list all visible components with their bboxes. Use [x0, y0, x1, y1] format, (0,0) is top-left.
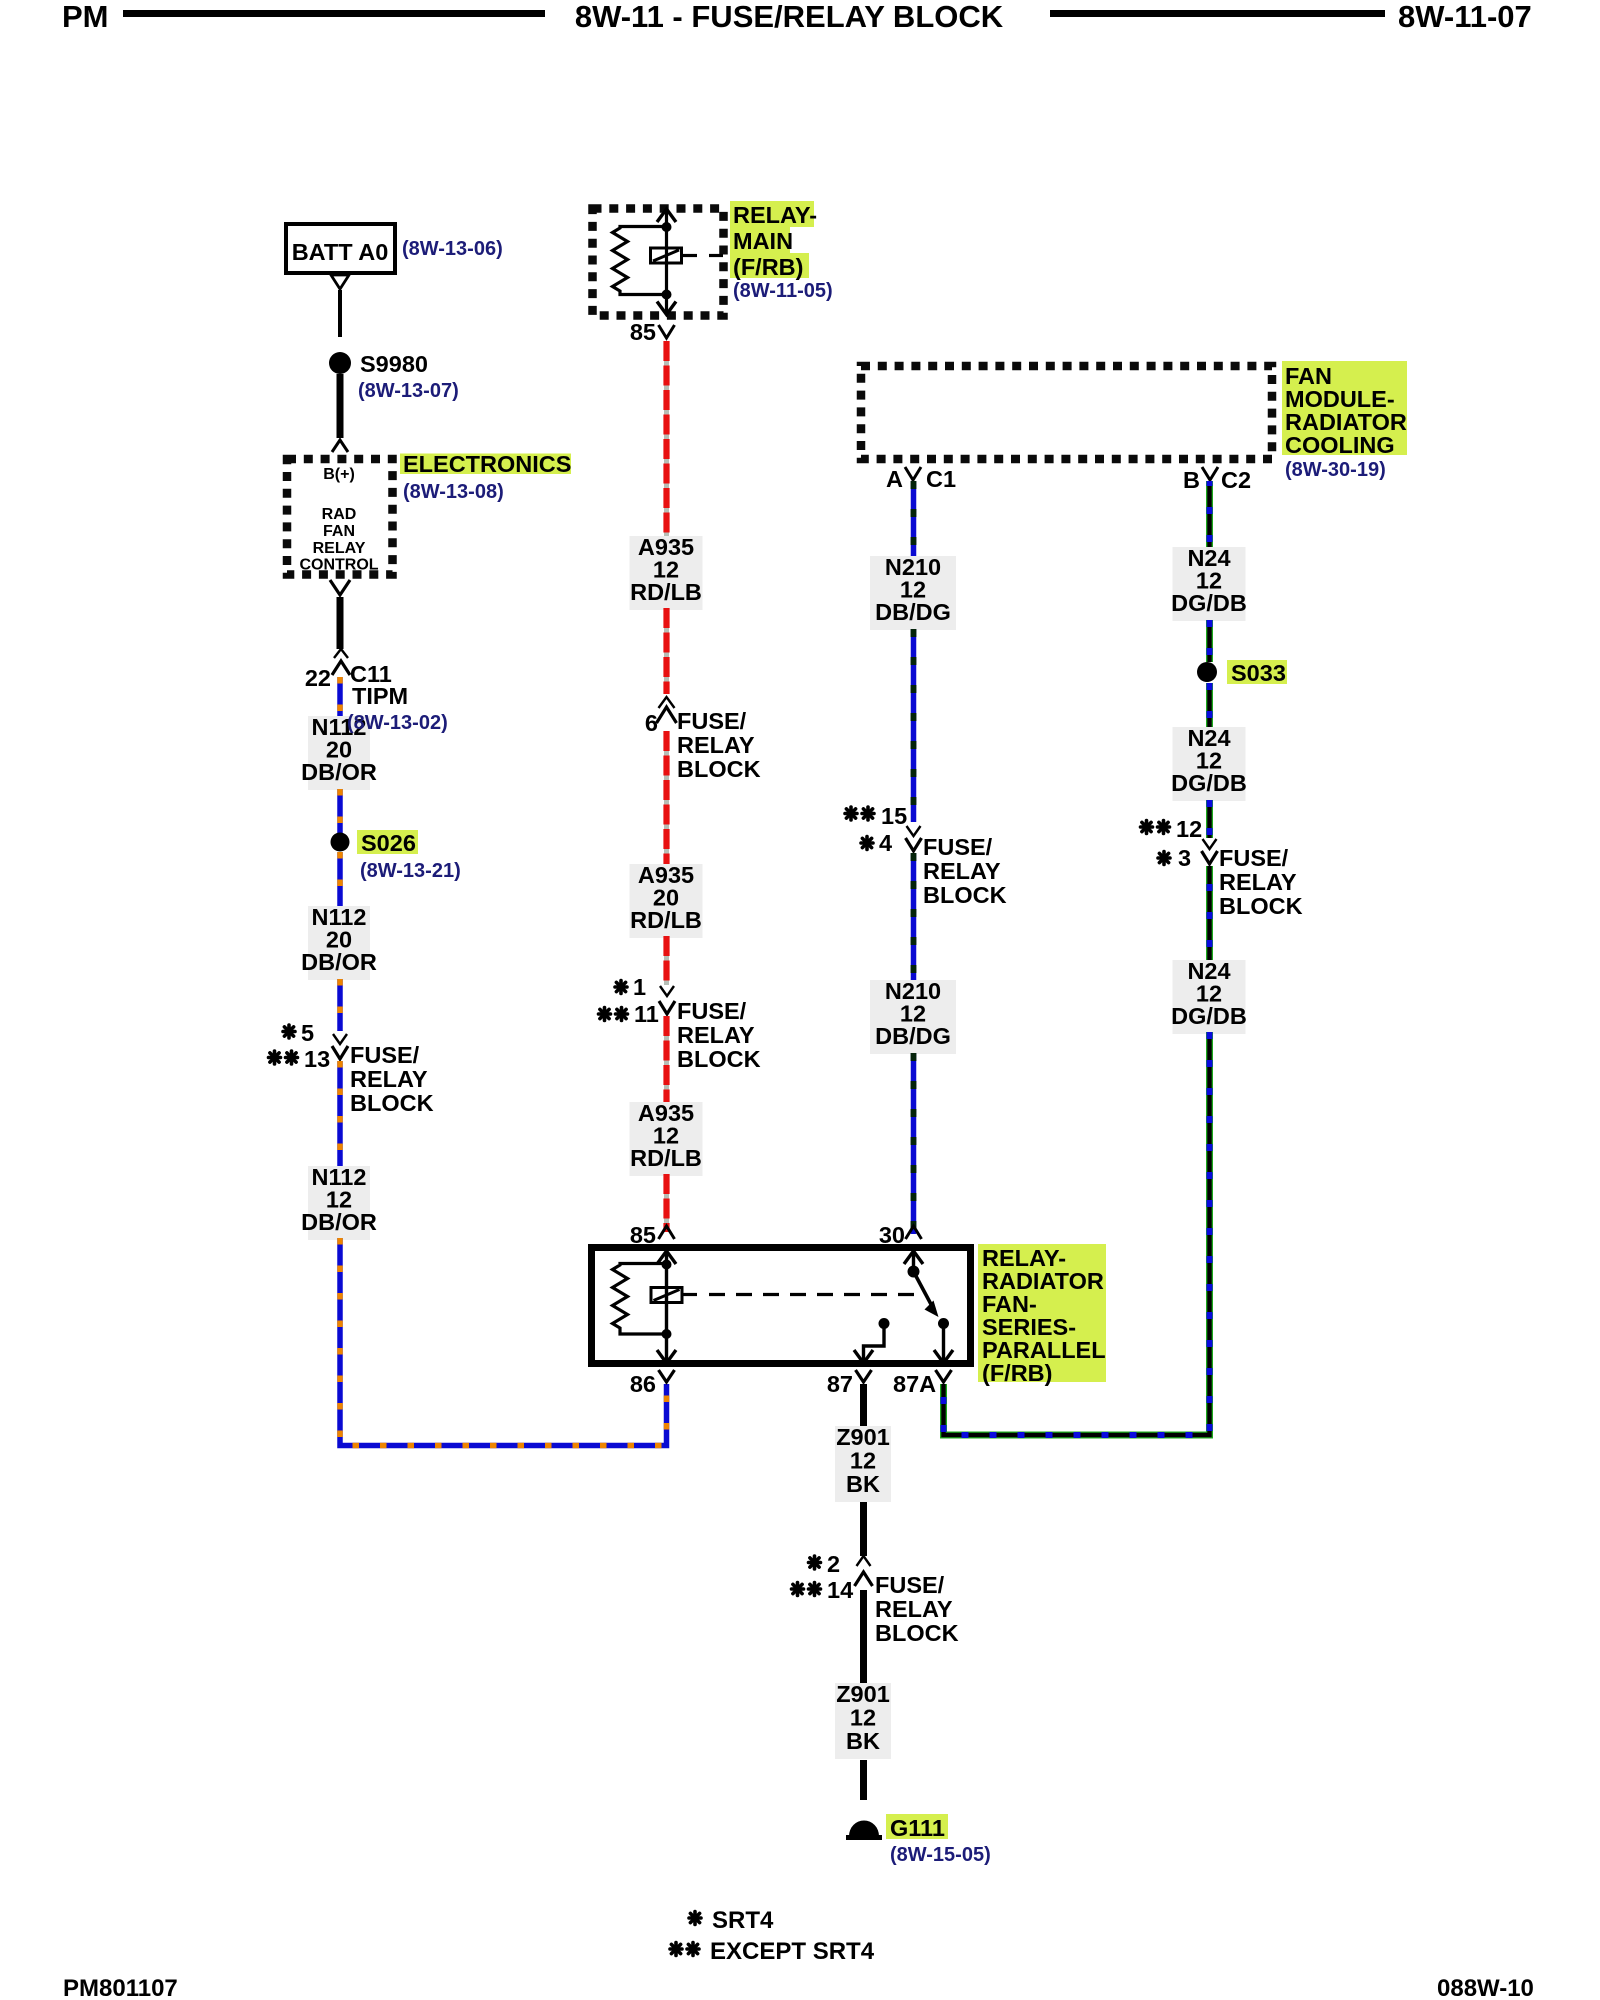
wire label Z901 12 BK — [835, 1426, 891, 1502]
note star star 15 — [845, 807, 857, 820]
connector triangle below BATT A0 — [331, 275, 349, 289]
svg-text:(8W-13-06): (8W-13-06) — [402, 238, 503, 260]
wire N112 12 DB/OR segment 5 — [337, 1061, 343, 1166]
svg-text:(8W-11-05): (8W-11-05) — [733, 280, 833, 302]
svg-text:BK: BK — [846, 1728, 880, 1754]
footnote star star EXCEPT SRT4 — [670, 1943, 682, 1956]
svg-text:BLOCK: BLOCK — [875, 1620, 959, 1646]
wire A935 segment 4 — [664, 936, 669, 985]
svg-text:RELAY: RELAY — [875, 1596, 953, 1622]
svg-text:14: 14 — [827, 1577, 853, 1603]
svg-text:15: 15 — [881, 803, 907, 829]
connector FUSE/RELAY BLOCK double chevron down — [1203, 839, 1217, 849]
relay-main junction dot top — [662, 222, 672, 232]
svg-text:SRT4: SRT4 — [712, 1907, 774, 1934]
relay arrow up pin 30 — [904, 1251, 923, 1264]
svg-text:RELAY: RELAY — [677, 1022, 755, 1048]
svg-text:DB/DG: DB/DG — [875, 599, 951, 625]
wire A935 20 RD/LB segment 3 — [664, 731, 669, 864]
wire Z901 segment 2 — [860, 1502, 867, 1556]
svg-text:Z901: Z901 — [836, 1424, 890, 1450]
note star star 14 — [792, 1583, 804, 1596]
connector FUSE/RELAY BLOCK double chevron up — [857, 1556, 871, 1566]
footnote star SRT4 — [689, 1912, 701, 1925]
svg-text:12: 12 — [850, 1448, 876, 1474]
svg-text:FAN: FAN — [323, 523, 355, 540]
svg-text:RD/LB: RD/LB — [630, 579, 702, 605]
wire label A935 20 RD/LB — [630, 864, 703, 938]
relay contact dot 87 — [879, 1318, 890, 1329]
wire label N24 12 DG/DB — [1173, 547, 1246, 621]
svg-text:4: 4 — [879, 830, 892, 856]
header rule left — [123, 10, 545, 17]
svg-text:CONTROL: CONTROL — [299, 557, 378, 574]
wire N112 20 DB/OR segment 2 — [337, 789, 343, 833]
note star 3 — [1158, 852, 1170, 865]
wire label N112 20 DB/OR — [308, 716, 370, 790]
svg-text:BLOCK: BLOCK — [923, 882, 1007, 908]
wire N112 20 DB/OR segment 1 — [337, 677, 343, 718]
svg-text:PM: PM — [62, 0, 109, 34]
svg-text:(8W-13-08): (8W-13-08) — [403, 481, 504, 503]
svg-text:FUSE/: FUSE/ — [1219, 845, 1289, 871]
svg-text:RELAY: RELAY — [313, 540, 366, 557]
wire label N112 12 DB/OR — [308, 1166, 370, 1240]
wire Z901 12 BK segment 3 — [860, 1590, 867, 1683]
wire label N112 20 DB/OR — [308, 906, 370, 980]
wire label N210 12 DB/DG — [870, 980, 956, 1054]
svg-text:ELECTRONICS: ELECTRONICS — [403, 451, 571, 477]
svg-text:DB/OR: DB/OR — [301, 1209, 377, 1235]
svg-text:(8W-13-02): (8W-13-02) — [347, 712, 448, 734]
svg-text:TIPM: TIPM — [352, 683, 408, 709]
svg-text:DG/DB: DG/DB — [1171, 1003, 1247, 1029]
svg-text:87A: 87A — [893, 1371, 936, 1397]
label RELAY-MAIN (F/RB) highlighted — [730, 201, 814, 227]
label S033 highlighted — [1227, 660, 1287, 684]
svg-text:B: B — [1183, 467, 1200, 493]
wire label N210 12 DB/DG — [870, 556, 956, 630]
wire N24 segment 4 — [1206, 800, 1213, 838]
relay box RELAY-MAIN dashed — [593, 209, 724, 316]
relay switch common dot — [908, 1266, 920, 1278]
svg-text:DB/DG: DB/DG — [875, 1023, 951, 1049]
svg-text:1: 1 — [633, 974, 646, 1000]
relay switch contact dot 87A — [938, 1318, 949, 1329]
svg-text:BLOCK: BLOCK — [350, 1090, 434, 1116]
splice S033 — [1197, 662, 1217, 682]
battery feed box BATT A0 — [286, 224, 395, 273]
relay pin 87A line — [942, 1324, 945, 1361]
svg-text:FUSE/: FUSE/ — [875, 1572, 945, 1598]
wire N210 segment 4 to relay pin 30 — [911, 1053, 917, 1234]
relay-main coil symbol — [651, 248, 682, 263]
svg-text:RD/LB: RD/LB — [630, 1145, 702, 1171]
ground G111 — [849, 1820, 879, 1836]
label ELECTRONICS highlighted — [400, 454, 571, 475]
connector FUSE/RELAY BLOCK double chevron down — [660, 986, 674, 996]
svg-text:2: 2 — [827, 1551, 840, 1577]
svg-text:EXCEPT SRT4: EXCEPT SRT4 — [710, 1938, 875, 1965]
svg-text:S9980: S9980 — [360, 351, 428, 377]
connector chevron pin 87A — [936, 1370, 952, 1382]
svg-text:86: 86 — [630, 1371, 656, 1397]
relay arrow down pin 87 — [854, 1350, 873, 1363]
header rule right — [1050, 10, 1385, 17]
svg-text:(8W-30-19): (8W-30-19) — [1285, 459, 1386, 481]
wire N112 segment 4 — [337, 979, 343, 1031]
relay box RELAY-RADIATOR FAN-SERIES-PARALLEL — [592, 1248, 971, 1364]
svg-text:RD/LB: RD/LB — [630, 907, 702, 933]
connector FUSE/RELAY BLOCK double chevron up — [659, 697, 675, 708]
svg-text:DG/DB: DG/DB — [1171, 770, 1247, 796]
note star star 13 — [269, 1051, 281, 1064]
relay coil symbol — [651, 1288, 682, 1303]
wire N24 long run to relay pin 87A — [944, 1032, 1210, 1435]
svg-text:87: 87 — [827, 1371, 853, 1397]
wire N112 12 DB/OR long run to relay pin 86 — [340, 1238, 667, 1446]
svg-text:RELAY: RELAY — [923, 858, 1001, 884]
wire A935 segment 6 — [664, 1174, 669, 1232]
splice S9980 — [329, 352, 351, 374]
svg-text:BATT A0: BATT A0 — [292, 239, 389, 265]
svg-text:B(+): B(+) — [323, 466, 355, 483]
wire N210 12 DB/DG segment 3 — [911, 853, 917, 980]
svg-text:MAIN: MAIN — [733, 228, 793, 254]
relay arrow down pin 87A — [934, 1350, 953, 1363]
wire label A935 12 RD/LB — [630, 536, 703, 610]
connector chevron at ELECTRONICS B(+) — [332, 440, 348, 452]
svg-text:5: 5 — [301, 1020, 314, 1046]
wire from S9980 to ELECTRONICS — [337, 374, 344, 438]
wire label Z901 12 BK — [835, 1683, 891, 1759]
svg-text:C1: C1 — [926, 466, 956, 492]
svg-text:FUSE/: FUSE/ — [677, 998, 747, 1024]
wire N24 12 DG/DB segment 5 — [1206, 866, 1213, 960]
relay-main arrow up — [657, 209, 676, 222]
svg-text:PM801107: PM801107 — [63, 1975, 178, 2000]
svg-text:BLOCK: BLOCK — [677, 756, 761, 782]
connector chevron pin A/C1 — [905, 467, 921, 480]
relay-main junction dot bottom — [662, 290, 672, 300]
svg-text:(F/RB): (F/RB) — [733, 254, 803, 280]
svg-text:COOLING: COOLING — [1285, 432, 1395, 458]
note star 2 — [809, 1556, 821, 1569]
connector chevron below ELECTRONICS — [330, 580, 350, 595]
svg-text:BLOCK: BLOCK — [677, 1046, 761, 1072]
relay coil to switch dashed link — [683, 1293, 698, 1296]
relay pin 87 bent line — [864, 1324, 885, 1361]
svg-text:RELAY: RELAY — [350, 1066, 428, 1092]
svg-text:85: 85 — [630, 319, 656, 345]
svg-text:A: A — [886, 466, 903, 492]
relay-main coil vertical line — [665, 211, 668, 313]
svg-text:3: 3 — [1178, 845, 1191, 871]
relay arrow down pin 86 — [657, 1350, 676, 1363]
wire ELECTRONICS to C11 — [337, 597, 344, 649]
label RELAY-RADIATOR FAN-SERIES-PARALLEL highlighted — [978, 1244, 1106, 1382]
svg-text:RAD: RAD — [322, 506, 357, 523]
relay pin 30 line — [912, 1252, 915, 1271]
wire from BATT A0 to S9980 — [338, 290, 342, 337]
svg-text:DG/DB: DG/DB — [1171, 590, 1247, 616]
svg-text:13: 13 — [304, 1046, 330, 1072]
svg-text:DB/OR: DB/OR — [301, 949, 377, 975]
svg-text:BK: BK — [846, 1471, 880, 1497]
relay junction dot bottom — [662, 1329, 672, 1339]
wire N210 segment 2 — [911, 629, 917, 822]
module box ELECTRONICS — [287, 459, 393, 575]
wire N24 12 DG/DB segment 1 — [1206, 481, 1213, 547]
svg-text:S026: S026 — [361, 830, 416, 856]
label FAN MODULE-RADIATOR COOLING highlighted — [1282, 361, 1407, 455]
wire A935 12 RD/LB segment 5 — [664, 1016, 669, 1102]
wire A935 12 RD/LB segment 1 — [664, 341, 669, 536]
svg-text:RELAY-: RELAY- — [733, 202, 817, 228]
connector FUSE/RELAY BLOCK double chevron down — [907, 826, 921, 836]
relay resistor — [613, 1264, 667, 1335]
note star star 12 — [1141, 821, 1153, 834]
relay junction dot top — [662, 1260, 672, 1270]
note star 1 — [615, 981, 627, 994]
svg-text:BLOCK: BLOCK — [1219, 893, 1303, 919]
svg-text:8W-11-07: 8W-11-07 — [1398, 0, 1532, 34]
label G111 highlighted — [886, 1814, 948, 1839]
svg-text:(8W-15-05): (8W-15-05) — [890, 1844, 991, 1866]
svg-text:(F/RB): (F/RB) — [982, 1360, 1052, 1386]
wire N24 segment 2 — [1206, 620, 1213, 662]
wire Z901 12 BK segment 1 — [860, 1384, 867, 1429]
svg-text:(8W-13-21): (8W-13-21) — [360, 860, 461, 882]
wire A935 segment 2 — [664, 608, 669, 694]
svg-text:FUSE/: FUSE/ — [923, 834, 993, 860]
wire Z901 segment 4 — [860, 1760, 867, 1800]
wire N210 12 DB/DG segment 1 — [911, 481, 917, 556]
svg-text:FUSE/: FUSE/ — [677, 708, 747, 734]
wire label A935 12 RD/LB — [630, 1102, 703, 1176]
connector chevron pin 87 — [856, 1370, 872, 1382]
svg-text:11: 11 — [634, 1001, 659, 1027]
connector chevron pin 86 — [659, 1370, 675, 1382]
connector chevron pin B/C2 — [1202, 467, 1218, 480]
connector FUSE/RELAY BLOCK double chevron down — [333, 1034, 347, 1044]
relay switch blade — [914, 1272, 934, 1309]
svg-text:FUSE/: FUSE/ — [350, 1042, 420, 1068]
label S026 highlighted — [357, 830, 418, 854]
svg-text:Z901: Z901 — [836, 1681, 890, 1707]
relay-main coil lead dashed — [682, 254, 698, 257]
note star 5 — [283, 1025, 295, 1038]
svg-text:(8W-13-07): (8W-13-07) — [358, 380, 459, 402]
svg-text:G111: G111 — [890, 1815, 945, 1841]
svg-text:RELAY: RELAY — [1219, 869, 1297, 895]
svg-text:6: 6 — [645, 710, 658, 736]
svg-text:DB/OR: DB/OR — [301, 759, 377, 785]
svg-text:088W-10: 088W-10 — [1437, 1975, 1534, 2000]
relay arrow up pin 85 — [657, 1251, 676, 1264]
svg-text:8W-11 - FUSE/RELAY BLOCK: 8W-11 - FUSE/RELAY BLOCK — [575, 0, 1004, 34]
wire N112 20 DB/OR segment 3 — [337, 852, 343, 906]
note star star 11 — [599, 1008, 611, 1021]
connector 22 C11 double chevron — [334, 649, 348, 658]
wire N24 segment 3 — [1206, 683, 1213, 727]
svg-text:12: 12 — [1176, 816, 1202, 842]
relay-main resistor — [613, 227, 667, 295]
splice S026 — [331, 833, 350, 852]
module box FAN MODULE-RADIATOR COOLING dashed — [861, 366, 1272, 459]
svg-text:C2: C2 — [1221, 467, 1251, 493]
svg-text:22: 22 — [305, 665, 331, 691]
svg-text:12: 12 — [850, 1705, 876, 1731]
relay-main arrow down — [657, 302, 676, 315]
wire label N24 12 DG/DB — [1173, 960, 1246, 1034]
svg-text:RELAY: RELAY — [677, 732, 755, 758]
relay coil vertical line pin 85-86 — [665, 1252, 668, 1361]
svg-text:S033: S033 — [1231, 660, 1286, 686]
note star 4 — [861, 837, 873, 850]
wire label N24 12 DG/DB — [1173, 727, 1246, 801]
